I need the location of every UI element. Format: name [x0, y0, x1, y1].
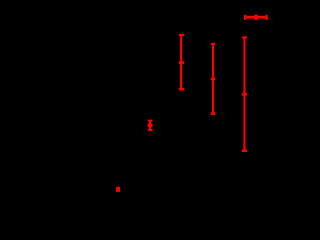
marker F [116, 187, 120, 192]
top cap E [148, 120, 153, 122]
top cap B [179, 34, 184, 36]
top cap D [242, 36, 247, 38]
left cap A [244, 15, 246, 20]
wire: vertical error line D [243, 36, 245, 151]
wire: horizontal error line A [244, 16, 268, 19]
bottom cap C [211, 112, 215, 115]
data point A: horizontal error bar top right [244, 15, 268, 21]
marker C [211, 78, 215, 81]
bottom cap D [242, 149, 247, 152]
data point C: vertical error bar x=213 [211, 43, 215, 115]
wire: vertical error line B [180, 34, 182, 90]
wire: vertical error line C [212, 43, 214, 115]
bottom cap B [179, 88, 184, 91]
right cap A [266, 15, 268, 20]
bottom cap E [148, 129, 153, 131]
marker E [148, 123, 153, 127]
marker B [179, 61, 184, 64]
data point E: small vertical error bar x=150 [148, 120, 153, 131]
data point D: vertical error bar x=244.5 [242, 36, 247, 152]
top cap C [211, 43, 215, 45]
data point B: vertical error bar x=181 [179, 34, 184, 91]
wire: vertical error line E [149, 120, 151, 131]
marker A [255, 15, 258, 21]
marker D [242, 93, 247, 96]
data point F: square marker bottom [116, 187, 120, 192]
